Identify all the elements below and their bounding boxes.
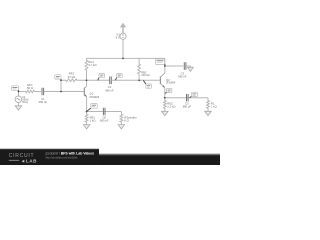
svg-text:50m): 50m) — [22, 101, 28, 104]
svg-text:1 kΩ: 1 kΩ — [211, 105, 217, 109]
svg-text:47 kΩ: 47 kΩ — [68, 75, 75, 79]
svg-text:680 nF: 680 nF — [178, 74, 187, 78]
svg-text:1 kΩ: 1 kΩ — [90, 119, 96, 123]
svg-text:http://circuitlab.com/c/ur5dzk: http://circuitlab.com/c/ur5dzk — [46, 157, 78, 160]
svg-text:680 μF: 680 μF — [183, 105, 192, 109]
svg-text:2N3904: 2N3904 — [166, 81, 176, 85]
svg-text:4.7 kΩ: 4.7 kΩ — [88, 63, 96, 67]
svg-text:50 Ω: 50 Ω — [27, 86, 33, 90]
svg-text:680 nF: 680 nF — [39, 100, 48, 104]
svg-text:8 Ω: 8 Ω — [124, 119, 128, 123]
svg-text:jcsdomit / BFS with Lab Values: jcsdomit / BFS with Lab Values — [45, 152, 95, 156]
svg-text:680 nF: 680 nF — [105, 88, 114, 92]
svg-text:680 μF: 680 μF — [100, 119, 109, 123]
svg-text:2N3904: 2N3904 — [89, 95, 99, 99]
svg-text:◄LAB: ◄LAB — [21, 158, 38, 163]
svg-text:100 kΩ: 100 kΩ — [141, 73, 149, 77]
svg-text:9 V: 9 V — [116, 36, 120, 40]
svg-text:1.2 kΩ: 1.2 kΩ — [167, 105, 175, 109]
